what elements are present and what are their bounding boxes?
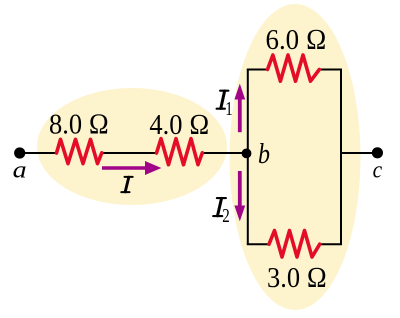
resistor R3 6.0 ohm	[268, 55, 320, 81]
svg-text:4.0 Ω: 4.0 Ω	[149, 109, 209, 141]
resistor R2 4.0 ohm	[157, 139, 203, 165]
current arrow I1	[238, 98, 242, 132]
wire R3 to top-right corner	[318, 69, 342, 71]
resistor R4 3.0 ohm	[269, 231, 320, 258]
label current I2 (italic serif glyph)	[213, 198, 226, 216]
wire bottom-left to R4	[247, 243, 269, 245]
svg-text:1: 1	[225, 98, 233, 120]
wire left vertical branch	[247, 70, 249, 245]
label current I (italic serif glyph)	[121, 177, 132, 192]
wire top-left to R3	[247, 69, 268, 71]
label current I1 (italic serif glyph)	[217, 91, 229, 109]
node a	[14, 147, 25, 158]
wire right vertical branch	[340, 70, 342, 245]
current arrow I	[102, 166, 147, 169]
svg-text:b: b	[258, 139, 270, 170]
svg-text:3.0 Ω: 3.0 Ω	[267, 262, 327, 294]
wire R2 to node b	[201, 152, 248, 154]
svg-text:6.0 Ω: 6.0 Ω	[266, 24, 327, 56]
highlight ellipse (parallel section)	[230, 4, 361, 310]
svg-text:8.0 Ω: 8.0 Ω	[49, 108, 109, 140]
wire R1 to R2	[102, 152, 156, 154]
svg-text:a: a	[13, 157, 27, 183]
svg-text:c: c	[373, 158, 383, 184]
wire right branch to node c	[341, 152, 378, 154]
wire R4 to bottom-right corner	[320, 243, 342, 245]
node b	[242, 149, 252, 159]
highlight ellipse (series section)	[37, 88, 227, 205]
svg-text:2: 2	[222, 205, 230, 227]
resistor R1 8.0 ohm	[57, 139, 102, 163]
wire a to R1	[20, 152, 57, 154]
node c	[372, 147, 383, 158]
current arrow I2	[238, 171, 242, 207]
